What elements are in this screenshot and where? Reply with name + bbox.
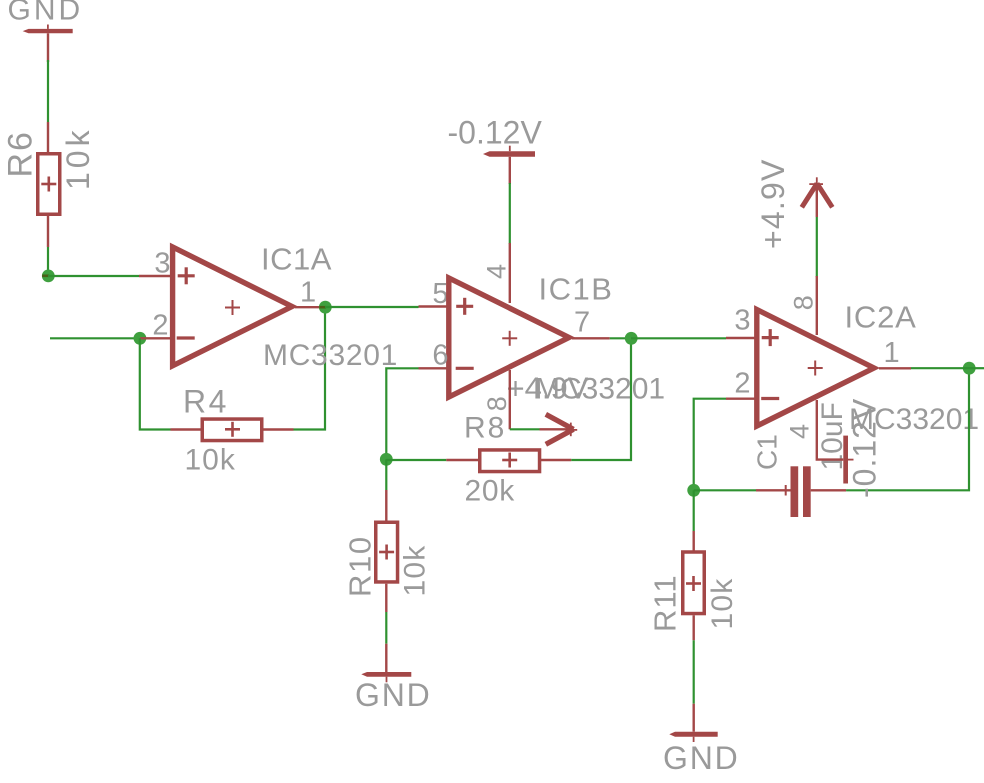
wire node A to IC1A pin 3 bbox=[48, 275, 139, 277]
op-amp IC1A bbox=[173, 247, 320, 366]
svg-text:20k: 20k bbox=[465, 475, 516, 508]
wire node C to IC1B pin 5 bbox=[325, 306, 419, 308]
svg-text:2: 2 bbox=[734, 368, 750, 400]
ground GND2 bbox=[361, 644, 411, 683]
output wire (to right edge) bbox=[969, 367, 984, 369]
supply +4.9V arrow (right) bbox=[546, 414, 577, 444]
junction node B bbox=[134, 332, 147, 345]
pin 2 stub IC2A bbox=[726, 398, 758, 400]
junction node G (IC2A output) bbox=[963, 362, 976, 375]
wire R11 to GND3 bbox=[693, 640, 695, 703]
wire pin 2 to node F bbox=[694, 399, 726, 491]
svg-text:GND: GND bbox=[8, 0, 84, 27]
svg-text:1: 1 bbox=[884, 337, 900, 369]
svg-text:R4: R4 bbox=[183, 384, 229, 420]
capacitor C1 bbox=[756, 466, 846, 517]
pin 2 stub IC1A bbox=[140, 337, 171, 339]
wire +4.9V to IC2A pin 8 bbox=[816, 217, 818, 277]
svg-text:10k: 10k bbox=[706, 578, 739, 630]
svg-text:5: 5 bbox=[432, 278, 448, 310]
pin 3 stub IC2A bbox=[726, 337, 758, 339]
svg-text:IC1B: IC1B bbox=[539, 272, 614, 307]
pin line to +4.9V arrow bbox=[540, 428, 572, 430]
wire node E to IC2A pin 3 bbox=[631, 337, 726, 339]
wire R8 to node E bbox=[571, 338, 631, 460]
resistor R6 bbox=[38, 122, 60, 247]
wire R4 to node C bbox=[294, 307, 326, 429]
svg-text:MC33201: MC33201 bbox=[263, 339, 398, 372]
ground GND1 bbox=[23, 25, 73, 63]
wire node D to R8 bbox=[386, 459, 446, 461]
svg-text:4: 4 bbox=[785, 424, 815, 439]
svg-text:7: 7 bbox=[574, 307, 590, 339]
wire node D to R10 bbox=[385, 459, 387, 490]
op-amp IC1B bbox=[449, 278, 610, 397]
svg-text:IC2A: IC2A bbox=[845, 300, 917, 335]
svg-text:+4.9V: +4.9V bbox=[507, 371, 589, 406]
svg-text:+4.9V: +4.9V bbox=[755, 158, 791, 249]
svg-text:GND: GND bbox=[663, 740, 740, 776]
pin 7 wire to node E bbox=[610, 337, 631, 339]
svg-text:IC1A: IC1A bbox=[261, 242, 332, 277]
wire node F to C1 bbox=[694, 489, 756, 491]
junction node E bbox=[625, 332, 638, 345]
svg-text:6: 6 bbox=[432, 340, 448, 372]
svg-text:4: 4 bbox=[482, 264, 512, 279]
supply -0.12V symbol (right) bbox=[843, 436, 853, 484]
supply -0.12V symbol bbox=[483, 146, 535, 184]
pin 8 stub IC1B bbox=[509, 370, 511, 429]
pin 5 stub IC1B bbox=[419, 305, 449, 307]
wire node B down to R4 row bbox=[140, 338, 171, 429]
resistor R10 bbox=[376, 490, 398, 612]
junction node C (IC1A output) bbox=[319, 301, 332, 314]
svg-text:10k: 10k bbox=[185, 444, 236, 477]
svg-text:1: 1 bbox=[300, 277, 316, 309]
wire pin 8 to +4.9V arrow bbox=[510, 428, 540, 430]
op-amp IC2A bbox=[757, 310, 911, 427]
svg-text:2: 2 bbox=[152, 310, 168, 342]
wire node F to R11 bbox=[693, 490, 695, 531]
pin 4 stub IC1B bbox=[509, 243, 511, 303]
wire C1 to node G bbox=[846, 368, 969, 490]
resistor R8 bbox=[446, 450, 571, 472]
resistor R11 bbox=[683, 531, 705, 640]
pin overlap in node A bbox=[42, 274, 49, 277]
resistor R4 bbox=[171, 419, 294, 441]
pin overlap in node C bbox=[319, 306, 326, 309]
svg-text:GND: GND bbox=[355, 677, 432, 713]
svg-text:8: 8 bbox=[789, 295, 819, 310]
svg-text:-0.12V: -0.12V bbox=[847, 398, 883, 498]
pin 4 stub IC2A bbox=[817, 400, 844, 460]
svg-text:-0.12V: -0.12V bbox=[448, 115, 543, 151]
pin 6 stub IC1B bbox=[419, 367, 449, 369]
wire IC2A pin 1 to node G bbox=[911, 367, 969, 369]
pin 8 stub IC2A bbox=[816, 276, 818, 335]
junction node A bbox=[42, 270, 55, 283]
svg-text:10k: 10k bbox=[60, 126, 96, 190]
svg-text:R11: R11 bbox=[648, 574, 683, 632]
wire R10 to GND2 bbox=[385, 612, 387, 644]
svg-text:R8: R8 bbox=[464, 412, 506, 445]
wire R6 to node A bbox=[47, 247, 49, 276]
ground GND3 bbox=[669, 704, 717, 742]
junction node F bbox=[687, 484, 700, 497]
svg-text:8: 8 bbox=[482, 396, 512, 411]
wire -0.12V to IC1B pin 4 bbox=[509, 183, 511, 244]
svg-text:3: 3 bbox=[734, 305, 750, 337]
svg-text:3: 3 bbox=[154, 248, 170, 280]
svg-text:R10: R10 bbox=[343, 535, 378, 597]
svg-text:10k: 10k bbox=[399, 545, 432, 597]
junction node D bbox=[380, 453, 393, 466]
wire pin 6 to node D bbox=[386, 368, 418, 459]
svg-text:R6: R6 bbox=[2, 130, 40, 177]
wire GND1 to R6 bbox=[47, 60, 49, 122]
input wire (open end) bbox=[50, 337, 140, 339]
svg-text:C1: C1 bbox=[752, 434, 783, 470]
supply +4.9V arrow (up) bbox=[802, 177, 833, 217]
pin 3 stub IC1A bbox=[139, 275, 171, 277]
